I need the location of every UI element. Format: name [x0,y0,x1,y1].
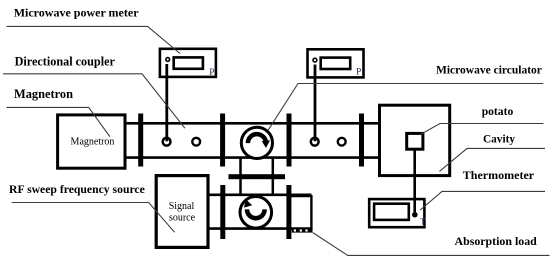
directional coupler port 1 [163,138,171,146]
flange F2 upper waveguide [220,114,225,167]
leader line to power meter P1 [7,26,181,53]
power meter P2 box [308,49,364,77]
circulator U2 body [240,197,272,229]
flange F1 upper waveguide [138,114,143,167]
leader line to signal source box [12,203,175,233]
monitor port 4 [338,138,346,146]
circulator U2 arrow [247,209,265,218]
svg-text:Cavity: Cavity [483,134,515,146]
circulator U1 arrowhead [262,140,270,148]
absorption load top wall [289,195,312,197]
thermometer box [369,199,424,227]
svg-text:potato: potato [482,105,514,118]
leader line to circulator U1 [268,84,543,131]
power meter P1 indicator dot [166,58,170,62]
directional coupler port 2 [192,138,200,146]
flange: vertical link mid flange [229,174,286,179]
absorption load absorber dot 3 [305,229,307,231]
leader line to thermometer [420,191,545,210]
thermometer probe dot [412,212,418,218]
power meter P2 indicator dot [313,58,317,62]
svg-text:Directional coupler: Directional coupler [15,55,116,69]
cavity box [380,105,450,175]
leader line to absorption load [313,233,550,256]
leader line to potato sample [420,124,544,135]
circulator U1 body [241,127,272,158]
wire: probe from power meter P2 to monitor port [314,65,317,142]
power meter P1 box [160,49,216,77]
wire: temperature probe from potato to thermometer [413,149,416,212]
monitor port 3 [311,138,319,146]
absorption load absorber dot 1 [294,229,296,231]
flange F4 upper waveguide [359,114,364,167]
wire: lower waveguide top wall [208,194,312,197]
svg-text:Microwave circulator: Microwave circulator [436,65,542,77]
wire: probe tail inside thermometer [413,199,416,212]
circulator U1 arrow [248,134,266,143]
power meter P1 display [174,57,203,68]
wire: vertical link right wall [272,157,275,196]
absorption load right wall [310,195,312,231]
svg-text:Microwave power meter: Microwave power meter [14,6,140,20]
svg-text:Magnetron: Magnetron [14,87,73,101]
flange F6 lower waveguide [286,185,291,239]
svg-text:Magnetron: Magnetron [71,136,115,147]
power meter P2 display [321,58,351,69]
thermometer display [374,204,409,220]
circulator U2 arrowhead [244,199,252,207]
svg-text:Thermometer: Thermometer [463,168,535,182]
leader line to magnetron box [7,107,110,136]
svg-text:Signal: Signal [169,201,195,212]
wire: probe from power meter P1 to coupler [165,64,168,141]
absorption load absorber strip [292,228,312,232]
leader line to cavity box [439,148,545,171]
svg-text:source: source [169,213,196,224]
svg-text:P: P [209,68,214,78]
potato sample square [407,133,423,149]
flange F5 lower waveguide [220,185,225,239]
absorption load absorber dot 2 [300,229,302,231]
svg-text:T: T [420,216,426,226]
wire: upper waveguide top wall [125,122,380,125]
magnetron box [58,115,125,168]
svg-text:Absorption load: Absorption load [455,234,538,248]
flange F3 upper waveguide [287,114,292,167]
wire: upper waveguide bottom wall [125,156,380,159]
signal source box [156,176,208,248]
wire: vertical link left wall [239,157,242,196]
svg-text:P: P [356,68,361,78]
svg-text:RF sweep frequency source: RF sweep frequency source [9,183,145,196]
leader line to directional coupler [3,74,185,128]
wire: lower waveguide bottom wall [208,227,312,230]
